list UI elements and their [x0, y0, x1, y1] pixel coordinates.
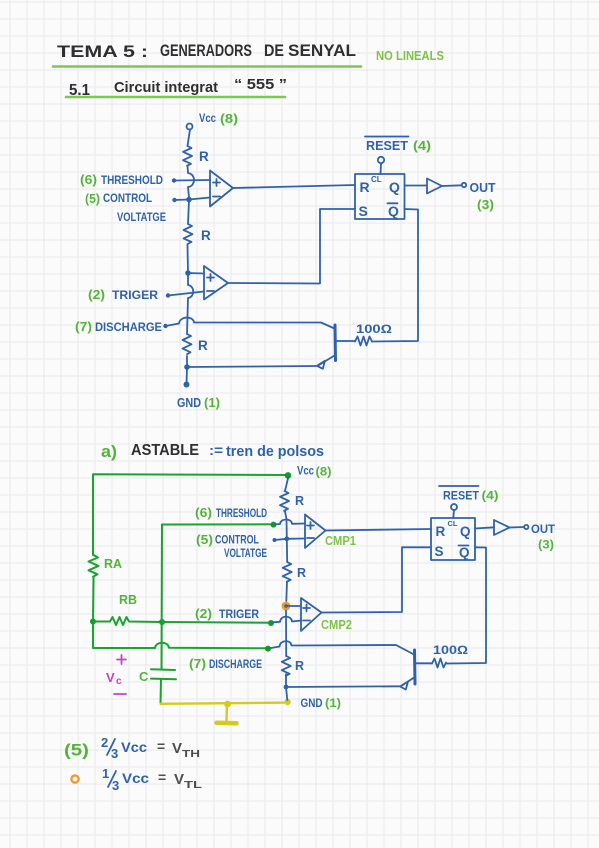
- node discharge green terminal: [265, 646, 271, 652]
- svg-text:RA: RA: [104, 557, 122, 571]
- wire discharge line green with hop: [93, 622, 268, 649]
- label RESET (4) with overline: [365, 137, 431, 154]
- svg-text:R: R: [199, 149, 209, 164]
- svg-text:(8): (8): [316, 467, 332, 479]
- svg-text:TRIGER: TRIGER: [112, 288, 158, 302]
- Vcc terminal pin 8: [187, 124, 193, 130]
- svg-text:ASTABLE: ASTABLE: [131, 442, 199, 459]
- node control junction: [186, 197, 192, 203]
- label OUT (3): [470, 181, 496, 212]
- svg-text:(5): (5): [196, 533, 213, 547]
- svg-text:(2): (2): [195, 607, 212, 621]
- svg-text:V: V: [172, 740, 182, 757]
- op-amp CMP2: [301, 598, 352, 632]
- wire junction to comparator2 + input: [188, 272, 204, 275]
- node emitter junction: [184, 364, 190, 370]
- svg-text:THRESHOLD: THRESHOLD: [216, 508, 267, 520]
- svg-text:R: R: [297, 566, 306, 580]
- transistor Q2 emitter arrow: [400, 677, 415, 690]
- svg-text:R: R: [198, 338, 208, 353]
- svg-text:Vcc: Vcc: [199, 111, 216, 125]
- node threshold green terminal: [271, 522, 277, 528]
- svg-text:(7): (7): [189, 657, 206, 671]
- wire 100ohm to flipflop Qbar: [446, 547, 486, 663]
- label (5) CONTROL VOLTATGE: [196, 533, 267, 560]
- svg-text:R: R: [201, 228, 211, 243]
- wire R1 to threshold node with hop over threshold wire: [188, 166, 195, 199]
- wire emitter line: [187, 366, 316, 367]
- label RESET (4) with overline: [439, 486, 499, 503]
- FORMULAS: [64, 735, 203, 793]
- trigger terminal and wire to comparator2 - input: [166, 292, 204, 298]
- flip-flop U2 box: [431, 518, 475, 560]
- svg-text:(5): (5): [85, 192, 100, 206]
- svg-text:TEMA 5 :: TEMA 5 :: [57, 42, 148, 61]
- threshold terminal and wire to comparator + input: [172, 178, 210, 182]
- wire emitter line: [286, 685, 400, 688]
- flip-flop U1 pin labels: [359, 175, 401, 219]
- flip-flop U1 box: [355, 174, 405, 219]
- wire CMP1 output to flipflop R: [326, 529, 432, 531]
- svg-text:a): a): [101, 442, 117, 461]
- svg-text:R: R: [295, 494, 304, 508]
- svg-text:GND: GND: [301, 696, 323, 710]
- resistor R bottom divider: [282, 656, 304, 676]
- node trigger green terminal: [268, 620, 274, 626]
- svg-text:Q: Q: [459, 545, 470, 560]
- op-amp comparator 1: [210, 171, 233, 207]
- resistor R mid divider: [283, 562, 306, 582]
- svg-text:SENYAL: SENYAL: [288, 41, 356, 60]
- svg-text:1: 1: [102, 766, 109, 781]
- wire trigger to CMP2 - input with hop: [273, 617, 301, 623]
- title text TEMA 5: GENERADORS DE SENYAL: [57, 41, 356, 61]
- ground symbol: [217, 704, 237, 723]
- discharge terminal and wire with hop to transistor collector: [163, 318, 334, 329]
- wire R3 to ground node: [186, 356, 188, 367]
- wire Q to output buffer: [405, 185, 428, 187]
- svg-text:VOLTATGE: VOLTATGE: [224, 548, 267, 560]
- label Vcc (8): [199, 111, 238, 126]
- svg-text:DISCHARGE: DISCHARGE: [209, 659, 262, 671]
- resistor 100 ohm: [355, 322, 392, 346]
- wire threshold to CMP1 + input with hop: [275, 519, 305, 524]
- svg-text:(1): (1): [325, 696, 341, 710]
- resistor R3: [183, 334, 209, 354]
- subtitle 5.1 Circuit integrat 555: [69, 76, 287, 99]
- svg-text:(4): (4): [482, 489, 499, 503]
- node trigger divider junction: [185, 270, 191, 276]
- svg-text:2: 2: [101, 735, 108, 750]
- CIRCUIT2: [89, 464, 556, 724]
- svg-text:100Ω: 100Ω: [433, 643, 468, 657]
- svg-text:DE: DE: [264, 41, 284, 60]
- svg-text:RB: RB: [119, 593, 137, 607]
- svg-text:(6): (6): [195, 506, 212, 520]
- svg-text:TH: TH: [182, 748, 200, 760]
- label (2) TRIGER: [195, 607, 260, 621]
- svg-text:=: =: [157, 738, 165, 754]
- svg-text:(2): (2): [88, 288, 105, 302]
- title underline: [53, 65, 361, 68]
- svg-text:(3): (3): [538, 538, 554, 552]
- formula (5) 2/3 Vcc = VTH: [64, 735, 200, 761]
- wire threshold feedback vertical green: [161, 525, 164, 669]
- wire R mid to trigger node: [285, 582, 288, 602]
- svg-text:V: V: [106, 670, 115, 685]
- svg-text:TRIGER: TRIGER: [219, 609, 260, 621]
- label (2) TRIGER: [88, 288, 158, 302]
- svg-text:Vcc: Vcc: [122, 770, 149, 786]
- node ground rail left: [224, 701, 231, 708]
- svg-text:=: =: [158, 769, 166, 785]
- output buffer triangle: [494, 520, 510, 535]
- svg-text:RESET: RESET: [366, 139, 408, 153]
- svg-text:TL: TL: [184, 779, 203, 791]
- svg-text:100Ω: 100Ω: [356, 322, 392, 336]
- op-amp comparator 2: [204, 266, 228, 300]
- label (5) CONTROL VOLTATGE: [85, 191, 166, 224]
- wire comparator1 output to flipflop R: [233, 185, 355, 188]
- output buffer triangle: [427, 179, 442, 194]
- label (6) THRESHOLD: [195, 506, 267, 520]
- wire CMP2 output to flipflop S: [322, 547, 432, 612]
- subtitle underline: [66, 96, 285, 99]
- resistor R1: [183, 146, 209, 166]
- wire Q to output buffer: [475, 527, 494, 528]
- svg-text:CMP1: CMP1: [325, 534, 356, 548]
- svg-text:VOLTATGE: VOLTATGE: [117, 210, 166, 224]
- label GND (1): [301, 696, 342, 710]
- svg-text:tren de polsos: tren de polsos: [226, 444, 324, 460]
- label OUT (3): [531, 522, 556, 552]
- svg-text:(7): (7): [75, 320, 92, 334]
- wire node to CMP2 + input: [286, 605, 301, 607]
- wire ground rail yellow: [161, 703, 289, 704]
- node control junction: [284, 536, 289, 541]
- label (7) DISCHARGE: [75, 320, 162, 334]
- wire comparator2 output to flipflop S: [228, 209, 355, 284]
- wire junction to CMP1 - input: [287, 538, 305, 540]
- svg-text:R: R: [295, 659, 304, 673]
- capacitor C plates: [139, 669, 176, 684]
- wire node to R2: [188, 200, 189, 225]
- svg-text:3: 3: [111, 746, 118, 761]
- resistor R2: [184, 224, 212, 244]
- resistor 100 ohm: [432, 643, 468, 668]
- ASTABLE-HEADER: [101, 442, 324, 461]
- resistor RA: [89, 555, 123, 577]
- node ground rail right: [284, 699, 290, 705]
- svg-text:Q: Q: [388, 203, 399, 219]
- TITLE-AREA: [53, 41, 444, 99]
- svg-text:Circuit integrat: Circuit integrat: [114, 79, 218, 96]
- label GND (1): [177, 396, 220, 410]
- svg-text:CL: CL: [448, 519, 458, 528]
- reset terminal circle and wire: [451, 504, 457, 518]
- label (6) THRESHOLD: [80, 173, 163, 187]
- wire C to ground rail: [160, 680, 163, 704]
- svg-text:R: R: [360, 179, 370, 195]
- svg-text:CL: CL: [371, 175, 382, 184]
- wire Vcc node to R top: [285, 478, 288, 492]
- wire divider down with hop over trigger wire: [187, 273, 193, 334]
- svg-text:“ 555 ”: “ 555 ”: [234, 76, 287, 93]
- transistor Q1 emitter arrow: [317, 356, 335, 369]
- svg-text:OUT: OUT: [470, 181, 496, 195]
- wire R to threshold crossing: [285, 511, 287, 539]
- wire divider through trigger: [285, 611, 287, 657]
- transistor Q2 base bar: [413, 650, 417, 684]
- node RB-C junction: [159, 619, 165, 625]
- wire base to 100ohm: [415, 662, 432, 664]
- svg-text:(4): (4): [413, 139, 431, 153]
- node RA-RB junction: [90, 619, 96, 625]
- control voltage terminal and wire: [273, 538, 287, 542]
- svg-text:GND: GND: [177, 396, 201, 410]
- wire buffer to OUT terminal: [442, 183, 466, 187]
- wire R bottom to emitter node: [285, 674, 287, 687]
- wire Vcc to R1: [188, 130, 191, 147]
- svg-text:C: C: [139, 669, 149, 684]
- svg-text:c: c: [116, 676, 122, 687]
- svg-text:CONTROL: CONTROL: [103, 191, 152, 205]
- svg-text:Vcc: Vcc: [297, 464, 314, 478]
- svg-text:Q: Q: [389, 179, 400, 195]
- svg-text:(8): (8): [220, 112, 238, 126]
- transistor Q1 base bar: [334, 325, 338, 361]
- op-amp CMP1: [305, 515, 356, 549]
- wire base to 100ohm: [336, 340, 356, 342]
- wire 100ohm to flipflop Qbar: [372, 209, 418, 342]
- node emitter junction: [284, 685, 289, 690]
- label (7) DISCHARGE: [189, 657, 262, 671]
- CIRCUIT1: [75, 111, 496, 410]
- wire junction to ground rail: [286, 687, 287, 700]
- svg-text:(6): (6): [80, 173, 97, 187]
- svg-text:DISCHARGE: DISCHARGE: [95, 320, 162, 334]
- svg-text:Q: Q: [460, 524, 471, 539]
- svg-text:S: S: [435, 544, 444, 559]
- wire trigger line green: [162, 621, 271, 624]
- wire divider mid: [286, 539, 288, 562]
- wire junction to comparator - input: [189, 198, 210, 200]
- svg-text:Vcc: Vcc: [121, 739, 147, 755]
- label RB: [119, 593, 137, 607]
- svg-text:3: 3: [112, 778, 119, 793]
- svg-text:(3): (3): [477, 198, 494, 212]
- wire discharge to transistor collector with hop: [271, 641, 414, 654]
- svg-text:S: S: [359, 203, 368, 219]
- wire RA to RB node: [92, 577, 95, 622]
- svg-text:THRESHOLD: THRESHOLD: [101, 173, 163, 187]
- wire threshold line green: [162, 523, 272, 525]
- svg-text:V: V: [174, 771, 184, 788]
- svg-text:NO LINEALS: NO LINEALS: [376, 48, 444, 63]
- svg-text:RESET: RESET: [443, 489, 480, 503]
- label Vcc (8): [297, 464, 332, 479]
- flip-flop U2 pin labels: [435, 519, 471, 560]
- reset terminal circle and wire: [378, 157, 384, 174]
- label Vc with plus minus magenta: [106, 655, 126, 694]
- control voltage terminal and wire: [172, 198, 189, 202]
- resistor R top divider: [280, 491, 304, 511]
- svg-text:R: R: [436, 524, 446, 539]
- svg-text:OUT: OUT: [531, 522, 556, 536]
- wire ground stem: [186, 367, 189, 384]
- svg-text:GENERADORS: GENERADORS: [160, 41, 252, 60]
- ground terminal GND pin 1: [184, 382, 190, 388]
- heading a) ASTABLE := tren de polsos: [101, 442, 324, 461]
- wire Vcc top rail green: [93, 474, 288, 555]
- wire R2 to trigger node: [187, 245, 190, 273]
- node Vcc junction: [285, 472, 292, 479]
- svg-text:(5): (5): [64, 741, 89, 760]
- node trigger divider junction orange highlight: [282, 602, 291, 611]
- svg-text:CONTROL: CONTROL: [215, 535, 259, 547]
- svg-text:(1): (1): [204, 396, 220, 410]
- formula o 1/3 Vcc = VTL: [71, 766, 202, 793]
- wire buffer to OUT terminal: [510, 525, 529, 529]
- svg-text:CMP2: CMP2: [321, 618, 352, 632]
- resistor RB: [93, 617, 162, 625]
- svg-text::=: :=: [209, 442, 223, 458]
